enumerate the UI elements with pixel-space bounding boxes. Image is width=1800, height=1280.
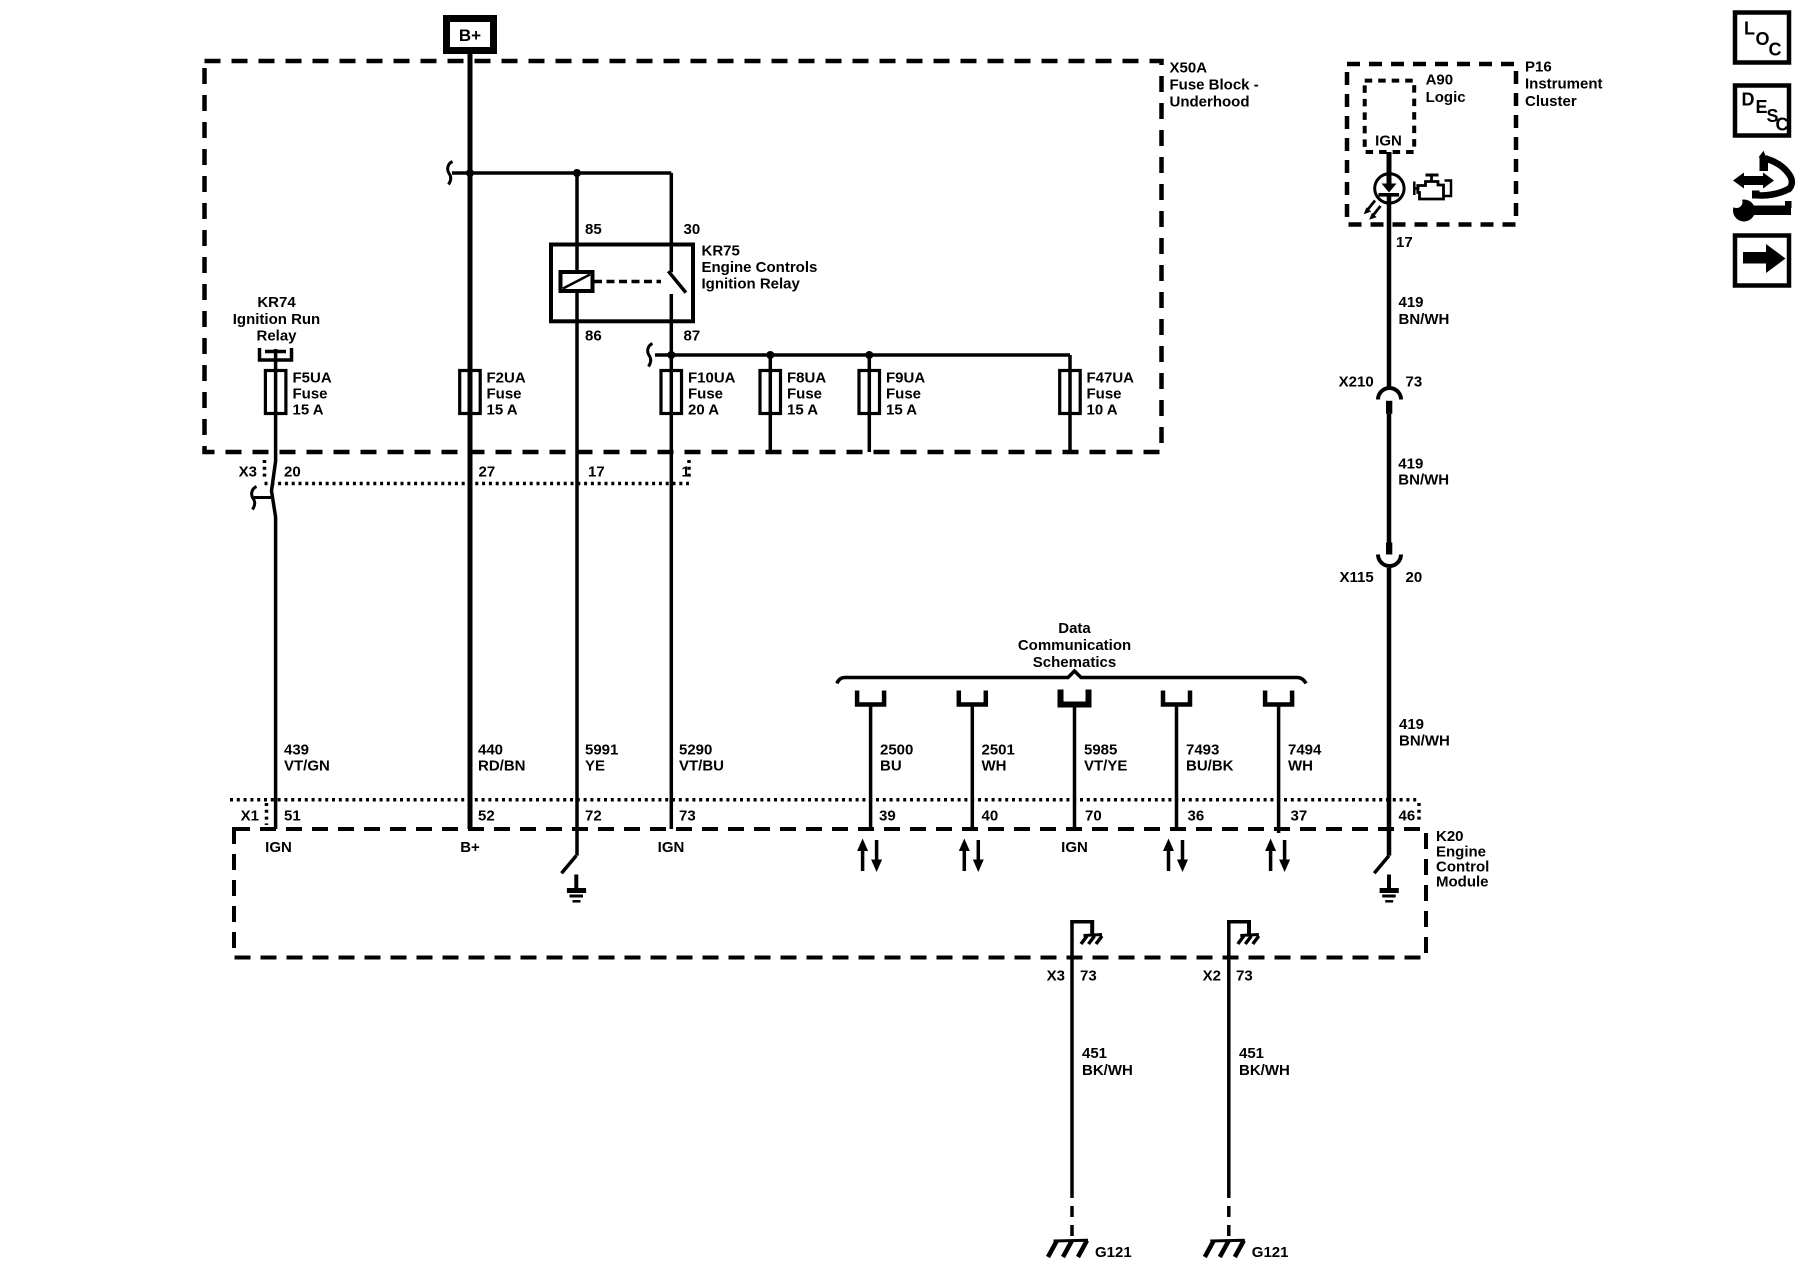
svg-text:17: 17 (1396, 234, 1413, 251)
svg-text:F5UA: F5UA (293, 370, 332, 387)
wire 2500 BU to ECM pin 39 (869, 705, 873, 830)
svg-text:Engine Controls: Engine Controls (702, 259, 818, 276)
fuse F9UA (859, 371, 880, 414)
svg-text:BU/BK: BU/BK (1186, 758, 1234, 775)
svg-text:419: 419 (1398, 456, 1423, 473)
svg-text:Ignition Relay: Ignition Relay (702, 276, 801, 293)
wire indicator to P16 pin 17 (1387, 197, 1392, 390)
svg-text:73: 73 (679, 808, 696, 825)
wire label 7493 BU/BK (1186, 742, 1234, 775)
KR75 label (702, 243, 818, 293)
terminal cup 2501 (959, 691, 986, 705)
Data Communication Schematics title (1018, 620, 1131, 671)
svg-text:Fuse: Fuse (487, 385, 522, 402)
wire relay pin 87 down through F10UA to ECM pin 73 (670, 294, 674, 829)
svg-text:X3: X3 (1047, 968, 1065, 985)
KR74 relay contact symbol (260, 348, 292, 360)
wire 451 BK/WH from X2-73 (1227, 957, 1231, 1187)
svg-text:Module: Module (1436, 874, 1489, 891)
svg-text:36: 36 (1188, 808, 1205, 825)
svg-text:X210: X210 (1339, 374, 1374, 391)
svg-text:C: C (1769, 40, 1782, 60)
connector X1 right tick (1417, 803, 1421, 822)
svg-text:A90: A90 (1426, 72, 1454, 89)
svg-text:Data: Data (1058, 620, 1091, 637)
sidebar wrench icon (1723, 192, 1792, 222)
svg-text:BK/WH: BK/WH (1082, 1062, 1133, 1079)
wire F47UA drop (1068, 355, 1072, 452)
ground G121 symbol (right) (1205, 1240, 1245, 1257)
svg-text:D: D (1742, 90, 1755, 110)
wire F9UA drop (868, 355, 872, 452)
svg-text:Communication: Communication (1018, 637, 1131, 654)
svg-text:B+: B+ (459, 26, 481, 45)
dashed continuation to G121 (right) (1227, 1187, 1231, 1239)
svg-text:Fuse: Fuse (1087, 385, 1122, 402)
svg-text:87: 87 (684, 328, 701, 345)
relay KR75 switch blade (668, 271, 686, 292)
wire X210 to X115 (1387, 414, 1392, 543)
svg-text:Logic: Logic (1426, 89, 1466, 106)
K20 Engine Control Module label (1436, 828, 1489, 891)
svg-text:Relay: Relay (256, 328, 297, 345)
wire 7494 WH to ECM pin 37 (1277, 705, 1281, 834)
svg-text:X1: X1 (241, 808, 259, 825)
svg-text:F47UA: F47UA (1087, 370, 1135, 387)
wire label 5991 YE (585, 742, 618, 775)
svg-text:15 A: 15 A (787, 401, 818, 418)
svg-text:73: 73 (1080, 968, 1097, 985)
svg-text:G121: G121 (1095, 1244, 1132, 1261)
bidirectional arrows pin 39 (857, 839, 882, 873)
svg-text:85: 85 (585, 221, 602, 238)
svg-text:51: 51 (284, 808, 301, 825)
svg-text:Fuse: Fuse (293, 385, 328, 402)
fuse block X50A dashed box (205, 61, 1162, 452)
svg-text:BK/WH: BK/WH (1239, 1062, 1290, 1079)
svg-text:30: 30 (684, 221, 701, 238)
svg-text:KR74: KR74 (257, 294, 296, 311)
wire label 440 RD/BN (478, 742, 526, 775)
relay KR75 coil (561, 272, 593, 291)
svg-text:20: 20 (1406, 569, 1423, 586)
svg-text:20: 20 (284, 464, 301, 481)
junction node at B+ branch (466, 169, 474, 177)
wire label 419 BN/WH (top) (1399, 294, 1450, 328)
ground symbol at ECM pin 46 (1380, 875, 1399, 902)
wire label 2501 WH (982, 742, 1015, 775)
wire F8UA drop (769, 355, 773, 452)
svg-text:RD/BN: RD/BN (478, 758, 526, 775)
svg-text:419: 419 (1399, 294, 1424, 311)
svg-text:17: 17 (588, 464, 605, 481)
svg-text:Schematics: Schematics (1033, 654, 1116, 671)
terminal cup 7494 (1265, 691, 1292, 705)
connector X3 dotted line (265, 482, 690, 486)
svg-text:Instrument: Instrument (1525, 76, 1603, 93)
wire label 5985 VT/YE (1084, 742, 1127, 775)
sidebar swap icon (curved arrow band + double arrow) (1733, 151, 1792, 199)
wire label 5290 VT/BU (679, 742, 724, 775)
hook lead-off branch at X3 pin 20 (252, 487, 272, 510)
svg-text:73: 73 (1236, 968, 1253, 985)
svg-text:20 A: 20 A (688, 401, 719, 418)
svg-text:BU: BU (880, 758, 902, 775)
junction node bus / F9UA (865, 351, 873, 359)
svg-text:86: 86 (585, 328, 602, 345)
svg-text:439: 439 (284, 742, 309, 759)
svg-text:15 A: 15 A (293, 401, 324, 418)
terminal cup 7493 (1163, 691, 1190, 705)
in-line connector X210 pin 73 (1378, 388, 1401, 414)
svg-text:IGN: IGN (265, 839, 292, 856)
bidirectional arrows pin 40 (959, 839, 984, 873)
svg-text:IGN: IGN (1375, 133, 1402, 150)
terminal cup 2500 (857, 691, 884, 705)
connector X3 right tick (687, 460, 691, 480)
terminal cup 5985 (1061, 690, 1089, 705)
svg-text:BN/WH: BN/WH (1399, 311, 1450, 328)
bidirectional arrows pin 37 (1265, 839, 1290, 873)
wire label 7494 WH (1288, 742, 1322, 775)
fuse block label X50A (1170, 60, 1259, 111)
svg-text:40: 40 (982, 808, 999, 825)
wire 2501 WH to ECM pin 40 (971, 705, 975, 830)
svg-text:X3: X3 (239, 464, 257, 481)
svg-text:B+: B+ (460, 839, 480, 856)
svg-text:F9UA: F9UA (886, 370, 925, 387)
wire 5985 VT/YE to ECM pin 70 (1073, 705, 1077, 830)
relay KR75 box (551, 245, 693, 322)
svg-text:Fuse: Fuse (787, 385, 822, 402)
svg-text:WH: WH (1288, 758, 1313, 775)
bidirectional arrows pin 36 (1163, 839, 1188, 873)
sidebar DESC button (1735, 86, 1789, 136)
svg-text:C: C (1776, 115, 1789, 135)
svg-text:7494: 7494 (1288, 742, 1322, 759)
svg-text:YE: YE (585, 758, 605, 775)
sidebar LOC button (1735, 13, 1789, 63)
svg-text:46: 46 (1399, 808, 1416, 825)
wire label 2500 BU (880, 742, 913, 775)
P16 label (1525, 59, 1603, 110)
svg-text:2500: 2500 (880, 742, 913, 759)
P16 Instrument Cluster dashed box (1347, 64, 1516, 225)
svg-text:7493: 7493 (1186, 742, 1219, 759)
switch blade to ground at ECM pin 46 (1374, 856, 1389, 874)
svg-text:X2: X2 (1203, 968, 1221, 985)
wire relay pin 30 (670, 173, 674, 272)
fuse F10UA (661, 371, 682, 414)
in-line connector X115 pin 20 (1378, 543, 1401, 567)
dashed continuation to G121 (left) (1070, 1187, 1074, 1239)
svg-text:5991: 5991 (585, 742, 618, 759)
svg-text:5985: 5985 (1084, 742, 1117, 759)
ECM K20 dashed box (234, 829, 1426, 958)
wire label 419 BN/WH (bottom) (1399, 716, 1450, 750)
svg-text:440: 440 (478, 742, 503, 759)
relay actuation dashed link (594, 280, 661, 284)
svg-text:X50A: X50A (1170, 60, 1208, 77)
connector X1 left tick (265, 803, 269, 825)
svg-text:451: 451 (1239, 1045, 1264, 1062)
svg-text:27: 27 (479, 464, 496, 481)
svg-text:39: 39 (879, 808, 896, 825)
svg-text:O: O (1756, 29, 1770, 49)
svg-text:Fuse Block -: Fuse Block - (1170, 77, 1259, 94)
ground symbol at ECM pin 72 (567, 875, 586, 902)
wire coil pin 85 (575, 173, 579, 272)
svg-text:VT/YE: VT/YE (1084, 758, 1127, 775)
A90 Logic dashed box (1365, 81, 1415, 152)
svg-text:Fuse: Fuse (688, 385, 723, 402)
svg-text:Fuse: Fuse (886, 385, 921, 402)
wire 451 BK/WH from X3-73 (1070, 957, 1074, 1187)
svg-text:15 A: 15 A (886, 401, 917, 418)
svg-text:L: L (1744, 19, 1755, 39)
check engine icon (1414, 175, 1451, 199)
switch blade to ground at ECM pin 72 (562, 856, 577, 874)
junction node at coil feed (573, 169, 581, 177)
wire X115 to ECM pin 46 (1387, 568, 1392, 856)
fuse F8UA (760, 371, 781, 414)
brace over data communication terminals (837, 671, 1306, 684)
wire B+ vertical to ECM pin 52 (468, 54, 473, 829)
svg-text:F2UA: F2UA (487, 370, 526, 387)
svg-text:70: 70 (1085, 808, 1102, 825)
svg-text:F8UA: F8UA (787, 370, 826, 387)
KR74 relay label (233, 294, 320, 345)
wire 7493 BU/BK to ECM pin 36 (1175, 705, 1179, 830)
case ground hook X2-73 inside ECM (1227, 920, 1259, 957)
svg-text:15 A: 15 A (487, 401, 518, 418)
svg-text:451: 451 (1082, 1045, 1107, 1062)
svg-text:1: 1 (682, 464, 690, 481)
battery feed B+ box (447, 19, 494, 51)
svg-text:KR75: KR75 (702, 243, 740, 260)
fuse F47UA (1060, 371, 1081, 414)
wire label 451 BK/WH (right) (1239, 1045, 1290, 1079)
svg-text:72: 72 (585, 808, 602, 825)
svg-text:5290: 5290 (679, 742, 712, 759)
fuse F2UA (460, 371, 481, 414)
fuse F5UA (265, 371, 286, 414)
svg-text:Cluster: Cluster (1525, 93, 1577, 110)
connector X3 left tick (263, 460, 267, 480)
svg-text:73: 73 (1406, 374, 1423, 391)
connector X1 dotted line (230, 798, 1419, 802)
svg-text:419: 419 (1399, 716, 1424, 733)
svg-text:VT/GN: VT/GN (284, 758, 330, 775)
junction node bus / pin 87 (667, 351, 675, 359)
wire KR74 to F5UA to ECM pin 51 (with connector jog) (272, 349, 276, 829)
svg-text:BN/WH: BN/WH (1399, 733, 1450, 750)
svg-text:VT/BU: VT/BU (679, 758, 724, 775)
svg-text:10 A: 10 A (1087, 401, 1118, 418)
hook lead-off symbol at bus left end (648, 344, 653, 367)
wire IGN to indicator (1387, 152, 1392, 184)
sidebar next-arrow button (1735, 236, 1789, 286)
ground G121 symbol (left) (1048, 1240, 1088, 1257)
junction node bus / F8UA (766, 351, 774, 359)
svg-text:Underhood: Underhood (1170, 94, 1250, 111)
indicator lamp (MIL) (1375, 174, 1404, 203)
svg-text:52: 52 (478, 808, 495, 825)
svg-text:BN/WH: BN/WH (1398, 472, 1449, 489)
wire label 419 BN/WH (middle) (1398, 456, 1449, 489)
svg-text:F10UA: F10UA (688, 370, 736, 387)
wire branch from B+ to relay pin 30 (452, 171, 671, 175)
svg-text:P16: P16 (1525, 59, 1552, 76)
hook lead-off symbol at branch left end (448, 162, 453, 185)
A90 label (1426, 72, 1466, 107)
svg-text:WH: WH (982, 758, 1007, 775)
svg-text:2501: 2501 (982, 742, 1015, 759)
svg-text:G121: G121 (1252, 1244, 1289, 1261)
wire coil pin 86 down to ECM pin 72 (575, 291, 579, 856)
svg-text:K20: K20 (1436, 828, 1464, 845)
fused output bus from pin 87 (655, 353, 1070, 357)
wire label 451 BK/WH (left) (1082, 1045, 1133, 1079)
wire label 439 VT/GN (284, 742, 330, 775)
svg-text:X115: X115 (1339, 569, 1373, 586)
svg-text:IGN: IGN (658, 839, 685, 856)
svg-text:37: 37 (1291, 808, 1308, 825)
svg-text:Ignition Run: Ignition Run (233, 311, 320, 328)
lamp emission arrows (1364, 201, 1381, 220)
case ground hook X3-73 inside ECM (1070, 920, 1102, 957)
svg-text:IGN: IGN (1061, 839, 1088, 856)
